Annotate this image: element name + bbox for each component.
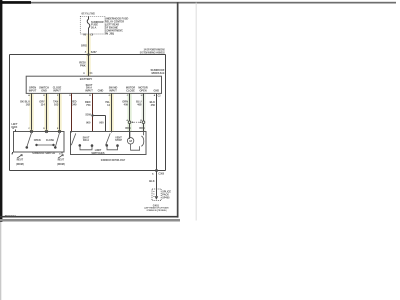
contact open [26, 147, 28, 149]
svg-text:BRN: BRN [125, 127, 130, 130]
svg-text:S267: S267 [91, 51, 97, 54]
splice dot S267 [87, 53, 90, 56]
scan left edge faint tail [0, 222, 1, 300]
svg-text:CMD: CMD [98, 89, 104, 92]
svg-text:INPUT: INPUT [85, 89, 93, 92]
drive arc [141, 132, 143, 147]
highlight wire motor close [127, 94, 131, 131]
svg-text:114: 114 [41, 102, 46, 106]
wire splice to module [88, 55, 90, 77]
svg-text:900: 900 [99, 121, 104, 125]
svg-text:753: 753 [86, 103, 91, 107]
svg-text:409: 409 [124, 102, 129, 106]
motor M body [127, 138, 133, 144]
scan left edge bar [0, 0, 2, 222]
svg-text:GND: GND [154, 89, 160, 92]
svg-text:PNK: PNK [80, 64, 86, 68]
wire motor close upper [129, 93, 131, 120]
svg-text:SWITCHES: SWITCHES [91, 152, 105, 155]
connector arrowheads [132, 121, 141, 123]
wire bus horizontal [10, 54, 166, 56]
svg-text:HOT AT ALL TIMES: HOT AT ALL TIMES [81, 11, 95, 15]
junction mark C305 [155, 169, 157, 171]
momentary arrow right [58, 155, 63, 159]
scan top edge dark segment [0, 1, 31, 4]
svg-text:BRN: BRN [139, 127, 144, 130]
motor M feed [129, 132, 131, 139]
highlight wire cmd [109, 94, 113, 131]
connector terminal B [142, 121, 145, 124]
svg-text:OPEN: OPEN [34, 139, 41, 142]
svg-text:SP405: SP405 [162, 196, 170, 199]
wire cmd [111, 93, 113, 131]
svg-text:OPENING IN QTR PANEL): OPENING IN QTR PANEL) [147, 209, 167, 212]
fuse F1 [87, 17, 90, 35]
svg-text:CLOSE: CLOSE [46, 139, 55, 142]
frame right edge [177, 2, 179, 218]
svg-text:G: G [109, 95, 111, 97]
ground arrow [155, 196, 159, 200]
detent dot right [53, 144, 54, 145]
svg-text:162: 162 [26, 102, 31, 106]
sunroof motor box M1 [71, 132, 147, 155]
svg-text:SUNROOF SWITCH: SUNROOF SWITCH [32, 151, 55, 155]
wire left branch down [9, 55, 11, 171]
fuse block dashed box [80, 16, 105, 34]
wire shut dn feed [71, 93, 73, 131]
splice dot S206 [91, 114, 93, 116]
svg-text:S206: S206 [85, 114, 91, 117]
contact shut [79, 145, 81, 147]
wire splice drop [105, 116, 107, 132]
svg-text:SYSTEM WIRING HARNESS: SYSTEM WIRING HARNESS [140, 50, 165, 54]
wire ground drop [156, 93, 158, 196]
bottom pin right [61, 152, 63, 154]
page bottom shadow bar [0, 219, 180, 222]
limit switch blade shut [71, 132, 76, 146]
terminal open [30, 130, 32, 132]
contact close [55, 147, 57, 149]
svg-text:DN A: DN A [83, 139, 89, 142]
svg-text:CLOSE: CLOSE [126, 89, 135, 92]
highlight wire open input [29, 94, 33, 131]
svg-text:NEUT: NEUT [58, 159, 65, 162]
connector terminal A [128, 121, 131, 124]
svg-text:900: 900 [86, 121, 91, 125]
svg-text:SUNROOF MOTOR ASSY: SUNROOF MOTOR ASSY [101, 158, 126, 162]
svg-text:340: 340 [72, 102, 77, 106]
connector dashed link [132, 121, 142, 123]
svg-text:BATTERY: BATTERY [80, 77, 93, 81]
svg-text:ORG: ORG [81, 43, 87, 47]
wire shut dn a [92, 93, 94, 131]
svg-text:STOP: STOP [115, 139, 122, 142]
terminal gnd [45, 130, 47, 132]
svg-text:INPUT: INPUT [29, 89, 37, 92]
svg-text:C305: C305 [158, 172, 164, 175]
highlight wire close input [57, 94, 61, 131]
svg-text:OPEN: OPEN [139, 89, 146, 92]
highlight fuse feed wire [86, 34, 90, 76]
highlight wire motor open [141, 94, 145, 131]
wire right branch down [157, 55, 166, 171]
frame bottom line [0, 216, 179, 218]
splice S206 bar [93, 115, 106, 117]
svg-text:TM#4012: TM#4012 [5, 214, 17, 218]
svg-text:(MOM): (MOM) [16, 163, 24, 166]
link vent [107, 146, 118, 150]
svg-text:NEUT: NEUT [17, 159, 24, 162]
pin A tick [15, 130, 17, 132]
svg-text:20 A: 20 A [91, 26, 97, 30]
bottom pin left [12, 152, 14, 154]
svg-text:450: 450 [151, 103, 156, 107]
splice pack ticks [153, 192, 155, 197]
ground splice pack dashed box [152, 189, 161, 201]
link shut [80, 146, 92, 150]
detent line [37, 144, 54, 146]
svg-text:IN JB): IN JB) [105, 31, 114, 35]
scan top edge line [0, 2, 396, 4]
contact shut b [91, 145, 93, 147]
svg-text:408: 408 [137, 102, 142, 106]
wire close input [59, 93, 61, 129]
svg-text:(MOM): (MOM) [57, 163, 65, 166]
terminal close [58, 130, 60, 132]
contact vent b [117, 145, 119, 147]
svg-text:163: 163 [54, 102, 59, 106]
svg-text:GND: GND [41, 89, 47, 92]
wire open input [31, 93, 33, 129]
svg-text:INPUT: INPUT [53, 89, 61, 92]
wire left branch bottom run [10, 170, 157, 172]
contact vent [106, 145, 108, 147]
switch blade open [27, 133, 32, 147]
momentary arrow left [17, 155, 22, 159]
switch blade close [56, 133, 60, 147]
module box U1 [26, 76, 161, 93]
wire motor close lower [129, 124, 131, 138]
wire motor open lower [143, 124, 145, 132]
svg-text:MODULE: MODULE [152, 71, 165, 75]
motor M return [131, 144, 140, 150]
svg-text:BLK: BLK [149, 179, 154, 183]
wire motor open upper [143, 93, 145, 120]
detent dot left [36, 144, 37, 145]
limit switch blade vent [106, 132, 112, 146]
highlight wire switch gnd [44, 94, 48, 131]
wire switch gnd [46, 93, 48, 129]
faint page crease line [195, 3, 198, 221]
sunroof switch box S1 [14, 132, 65, 153]
svg-text:INPUT: INPUT [109, 89, 117, 92]
wire fuse to splice [88, 34, 90, 55]
